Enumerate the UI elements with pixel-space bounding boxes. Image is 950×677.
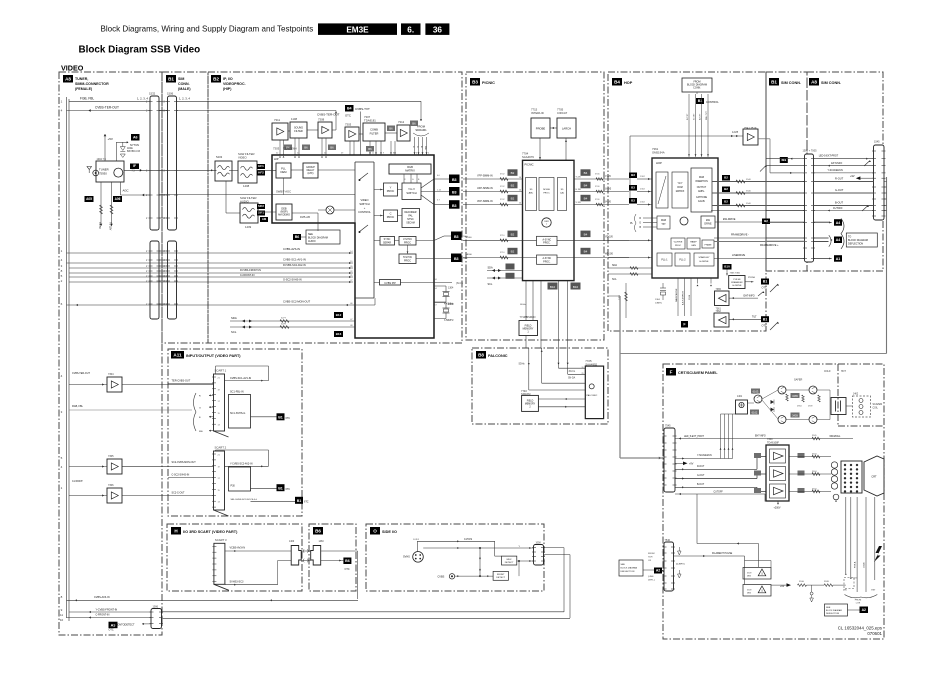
- svg-text:Y-U-V: Y-U-V: [408, 187, 415, 191]
- svg-text:1, 2, 3, 4: 1, 2, 3, 4: [179, 97, 190, 101]
- svg-text:B6: B6: [368, 147, 372, 151]
- svg-text:FRAMEDRIVE +: FRAMEDRIVE +: [760, 244, 779, 247]
- svg-text:PROC.: PROC.: [543, 261, 551, 263]
- svg-text:PROC.: PROC.: [543, 243, 551, 245]
- svg-text:SEPAR: SEPAR: [383, 242, 391, 245]
- svg-text:SEL-SVHS-SC2-SOCS-0-L: SEL-SVHS-SC2-SOCS-0-L: [231, 499, 258, 501]
- svg-text:SIF1: SIF1: [258, 211, 264, 215]
- svg-text:PALCONIC: PALCONIC: [488, 354, 508, 358]
- svg-text:3.58MHz: 3.58MHz: [444, 319, 454, 322]
- svg-text:SVHS: SVHS: [403, 556, 410, 559]
- svg-text:CVBS: CVBS: [438, 575, 445, 578]
- svg-text:G: G: [416, 146, 418, 148]
- svg-text:7312: 7312: [398, 120, 405, 124]
- svg-text:B10: B10: [573, 285, 579, 289]
- svg-text:6TC: 6TC: [286, 488, 291, 491]
- svg-text:6162: 6162: [752, 410, 758, 414]
- svg-text:B16: B16: [336, 332, 342, 336]
- svg-text:75930: 75930: [99, 172, 107, 176]
- svg-text:UFP-SIMM-IN: UFP-SIMM-IN: [477, 187, 493, 190]
- svg-text:3D: 3D: [561, 189, 564, 191]
- svg-text:B1: B1: [278, 486, 283, 490]
- svg-text:1532: 1532: [149, 92, 156, 96]
- svg-text:DEFLECTION: DEFLECTION: [621, 571, 635, 573]
- svg-text:DRIVE: DRIVE: [704, 223, 712, 226]
- svg-text:1108: 1108: [291, 117, 297, 121]
- svg-text:1462: 1462: [853, 394, 859, 396]
- svg-text:B6: B6: [295, 235, 300, 239]
- svg-text:HIP: HIP: [274, 157, 279, 161]
- svg-text:Y-CVBS-SC2-AV2-IN: Y-CVBS-SC2-AV2-IN: [230, 463, 253, 466]
- svg-text:14MHz: 14MHz: [655, 303, 662, 305]
- svg-text:6TC: 6TC: [286, 417, 291, 420]
- svg-text:CVBS-SC1-AV1-IN: CVBS-SC1-AV1-IN: [230, 377, 251, 380]
- svg-text:MSM4N: MSM4N: [526, 315, 535, 319]
- svg-text:IP, I/O: IP, I/O: [223, 77, 233, 81]
- svg-text:FM5-AB: FM5-AB: [300, 215, 310, 219]
- svg-text:VCBS-AV3-IN: VCBS-AV3-IN: [230, 547, 246, 550]
- svg-text:P5YN0: P5YN0: [748, 277, 756, 279]
- svg-text:B3: B3: [452, 191, 457, 195]
- svg-text:11: 11: [60, 613, 63, 617]
- svg-text:HF1: HF1: [258, 164, 264, 168]
- svg-text:3540: 3540: [746, 203, 752, 205]
- svg-text:B6: B6: [315, 529, 321, 534]
- svg-text:7305: 7305: [108, 455, 114, 458]
- svg-text:B4: B4: [614, 80, 620, 85]
- svg-text:Y 2/0: Y 2/0: [576, 177, 582, 179]
- svg-text:SAA4979: SAA4979: [522, 155, 534, 159]
- svg-text:SC2-CVBS-MON-OUT: SC2-CVBS-MON-OUT: [172, 461, 197, 464]
- svg-text:EHT-INFO: EHT-INFO: [755, 436, 766, 438]
- svg-text:CVBS-SC1-AV1-IN: CVBS-SC1-AV1-IN: [283, 258, 306, 262]
- svg-text:COLB: COLB: [864, 562, 866, 568]
- svg-text:DEFLECTION: DEFLECTION: [826, 613, 840, 615]
- svg-text:FIELD: FIELD: [527, 401, 534, 403]
- svg-text:TEA6306H: TEA6306H: [283, 147, 297, 151]
- svg-text:B1: B1: [763, 317, 768, 321]
- svg-text:PICNIC: PICNIC: [525, 163, 534, 167]
- svg-text:B-TXT: B-TXT: [700, 113, 702, 120]
- svg-text:U 2/0: U 2/0: [576, 189, 582, 191]
- svg-text:C: C: [390, 212, 392, 216]
- svg-text:ABC: ABC: [529, 192, 534, 195]
- svg-text:O-SC2-SVHS-IN: O-SC2-SVHS-IN: [283, 279, 302, 282]
- svg-text:AUDIO: AUDIO: [308, 240, 316, 243]
- svg-text:7311: 7311: [274, 118, 280, 122]
- svg-text:DEM: DEM: [281, 170, 288, 174]
- svg-text:B3: B3: [452, 178, 457, 182]
- svg-text:FROM: FROM: [648, 553, 655, 555]
- svg-text:IF: IF: [133, 164, 136, 168]
- svg-text:12V8: 12V8: [732, 130, 739, 134]
- svg-text:TER-CVBS-OUT: TER-CVBS-OUT: [172, 380, 191, 383]
- svg-text:!: !: [761, 572, 762, 576]
- svg-text:FILTER: FILTER: [294, 130, 303, 133]
- svg-text:POS-A: POS-A: [854, 561, 857, 568]
- svg-text:B2: B2: [511, 250, 515, 254]
- svg-text:B4: B4: [347, 107, 352, 111]
- svg-text:A8: A8: [65, 77, 71, 82]
- svg-text:CVBS-TER-OUT: CVBS-TER-OUT: [95, 105, 119, 109]
- svg-text:(MALE): (MALE): [178, 87, 191, 91]
- svg-text:VIDEO: VIDEO: [360, 198, 368, 202]
- svg-text:B4: B4: [584, 250, 588, 254]
- svg-text:1408: 1408: [243, 184, 250, 188]
- svg-text:AGC: AGC: [123, 189, 129, 193]
- svg-text:B3: B3: [454, 257, 459, 261]
- svg-text:INPUT/OUTPUT (VIDEO PART): INPUT/OUTPUT (VIDEO PART): [186, 354, 241, 358]
- svg-text:B6: B6: [412, 122, 416, 126]
- svg-text:INTERLID: INTERLID: [531, 111, 544, 115]
- svg-text:PROC: PROC: [404, 260, 411, 263]
- svg-text:SDA: SDA: [612, 264, 617, 267]
- svg-text:G-TXT: G-TXT: [694, 113, 696, 120]
- svg-text:R-OUT: R-OUT: [835, 177, 844, 181]
- svg-text:MATRIX: MATRIX: [405, 169, 415, 173]
- svg-text:FCVBS-FRONT-IN: FCVBS-FRONT-IN: [240, 269, 261, 272]
- svg-text:G-OUT: G-OUT: [835, 188, 844, 192]
- svg-text:7308: 7308: [318, 118, 325, 122]
- svg-text:INSERTION: INSERTION: [695, 181, 708, 183]
- svg-text:I/O 3RD SCART (VIDEO PART): I/O 3RD SCART (VIDEO PART): [183, 530, 238, 534]
- svg-text:SC1-FBL-IN: SC1-FBL-IN: [230, 391, 244, 394]
- svg-text:PLL: PLL: [281, 167, 286, 171]
- svg-text:1004 7.5: 1004 7.5: [97, 158, 107, 161]
- svg-text:AM DEMO: AM DEMO: [278, 214, 290, 217]
- svg-text:A4: A4: [836, 238, 841, 242]
- svg-text:Y-SCAVEM-IN: Y-SCAVEM-IN: [828, 169, 844, 172]
- svg-text:CVBS-AVS-IN: CVBS-AVS-IN: [283, 247, 300, 251]
- svg-text:TILT: TILT: [752, 316, 757, 319]
- svg-text:SEE: SEE: [621, 564, 626, 566]
- svg-text:B-OUT: B-OUT: [835, 201, 843, 205]
- svg-text:BLOCK DIAGRAM: BLOCK DIAGRAM: [826, 609, 842, 612]
- svg-text:PROC: PROC: [387, 215, 395, 219]
- svg-text:CUTOFF: CUTOFF: [714, 492, 724, 494]
- svg-text:SDRAM1: SDRAM1: [415, 128, 427, 132]
- svg-text:+9V: +9V: [850, 175, 855, 178]
- svg-text:STAND-BY: STAND-BY: [699, 256, 710, 259]
- svg-text:7714: 7714: [520, 315, 526, 319]
- svg-text:SCAVEM: SCAVEM: [873, 403, 883, 406]
- svg-text:BLOCK DIAGRAM: BLOCK DIAGRAM: [621, 567, 638, 570]
- svg-text:G: G: [199, 407, 201, 409]
- svg-text:29: 29: [582, 373, 584, 375]
- svg-text:G: G: [639, 223, 641, 225]
- svg-text:PROC: PROC: [543, 193, 550, 195]
- svg-text:2302: 2302: [640, 189, 646, 191]
- svg-text:OUTPUT: OUTPUT: [697, 187, 707, 189]
- svg-text:3465: 3465: [792, 394, 798, 398]
- svg-text:SDA: SDA: [231, 316, 237, 320]
- svg-text:Y: Y: [390, 186, 392, 190]
- svg-text:FROM: FROM: [417, 125, 426, 129]
- svg-text:SDHx: SDHx: [519, 364, 526, 366]
- svg-text:1304: 1304: [448, 287, 454, 290]
- svg-text:BZX88-C33: BZX88-C33: [127, 150, 141, 153]
- svg-text:TU-33V: TU-33V: [109, 222, 112, 231]
- svg-text:6163: 6163: [753, 389, 759, 393]
- svg-text:B4: B4: [584, 184, 588, 188]
- svg-text:SANDCASTLE: SANDCASTLE: [675, 288, 678, 302]
- svg-text:FBL-TXT: FBL-TXT: [706, 110, 708, 120]
- svg-text:RAMP: RAMP: [690, 241, 697, 244]
- svg-text:FRONT: FRONT: [497, 574, 505, 576]
- svg-text:VIDEO: VIDEO: [238, 156, 248, 160]
- svg-text:PROC: PROC: [675, 245, 682, 247]
- svg-text:A1: A1: [836, 257, 841, 261]
- svg-text:B3: B3: [631, 173, 635, 177]
- svg-text:SIM: SIM: [178, 77, 184, 81]
- svg-text:LINEDRIVE: LINEDRIVE: [732, 254, 746, 257]
- svg-text:PROC: PROC: [387, 189, 395, 193]
- svg-text:RGB, FBL: RGB, FBL: [72, 405, 84, 408]
- svg-text:SWITCH: SWITCH: [359, 202, 369, 206]
- svg-text:+9V: +9V: [689, 463, 694, 466]
- svg-text:B2: B2: [511, 171, 515, 175]
- svg-text:CVBS-TER-OUT: CVBS-TER-OUT: [72, 372, 90, 375]
- svg-text:SIDE I/O: SIDE I/O: [382, 530, 397, 534]
- svg-text:TDA6108F: TDA6108F: [767, 441, 780, 444]
- svg-text:7545: 7545: [665, 425, 671, 428]
- svg-text:OM5194A: OM5194A: [652, 151, 665, 155]
- svg-text:A-B-S-M-PROT: A-B-S-M-PROT: [682, 290, 685, 305]
- svg-text:OTC: OTC: [345, 568, 350, 571]
- svg-text:+200V: +200V: [774, 507, 781, 510]
- svg-text:6TC: 6TC: [304, 501, 309, 504]
- svg-text:B3: B3: [454, 235, 459, 239]
- svg-text:OTC: OTC: [762, 325, 767, 328]
- svg-text:B2: B2: [724, 176, 728, 180]
- svg-text:V 2/0: V 2/0: [576, 202, 582, 204]
- svg-text:350H: 350H: [799, 581, 804, 583]
- svg-text:MATRIX: MATRIX: [676, 190, 685, 193]
- svg-text:3D: 3D: [530, 189, 533, 191]
- svg-text:HF2: HF2: [258, 171, 264, 175]
- svg-text:6604/DAG: 6604/DAG: [830, 435, 841, 438]
- svg-text:TUNER,: TUNER,: [75, 77, 88, 81]
- svg-text:2302: 2302: [640, 202, 646, 204]
- svg-text:(HIP): (HIP): [223, 87, 232, 91]
- svg-text:SCL: SCL: [488, 283, 493, 286]
- svg-text:A8: A8: [811, 80, 817, 85]
- svg-text:SCL: SCL: [231, 330, 237, 334]
- svg-text:SCART 2: SCART 2: [215, 446, 227, 450]
- svg-text:OTC: OTC: [109, 628, 114, 631]
- svg-text:CVBS-SC2-MON-OUT: CVBS-SC2-MON-OUT: [283, 300, 311, 304]
- svg-text:Y-CVBS-FRONT-IN: Y-CVBS-FRONT-IN: [96, 608, 118, 611]
- svg-text:A2: A2: [862, 608, 866, 612]
- svg-text:SIMM-CONNECTOR: SIMM-CONNECTOR: [75, 82, 109, 86]
- svg-text:1461: 1461: [737, 396, 743, 398]
- svg-text:PLL-2: PLL-2: [679, 260, 686, 262]
- svg-text:7306: 7306: [108, 484, 114, 487]
- svg-text:LARCH: LARCH: [562, 127, 571, 131]
- svg-text:SCL: SCL: [612, 278, 617, 281]
- svg-text:DIN: DIN: [843, 590, 847, 592]
- svg-text:NOISE: NOISE: [543, 189, 550, 191]
- svg-text:EM3E: EM3E: [346, 25, 369, 34]
- svg-text:B4: B4: [584, 171, 588, 175]
- svg-text:B3: B3: [631, 199, 635, 203]
- svg-text:B6: B6: [389, 127, 393, 131]
- svg-text:PROBE: PROBE: [536, 127, 546, 131]
- svg-text:RGB: RGB: [661, 220, 666, 222]
- svg-text:Y-2/0: Y-2/0: [605, 175, 611, 178]
- svg-text:1460: 1460: [289, 541, 295, 543]
- svg-text:TDA9181: TDA9181: [364, 119, 376, 123]
- svg-text:RGB: RGB: [407, 165, 413, 169]
- svg-text:A06: A06: [115, 197, 121, 201]
- svg-text:7365 7366: 7365 7366: [730, 273, 741, 275]
- svg-text:(LPF): (LPF): [308, 172, 314, 175]
- svg-text:A6: A6: [133, 136, 138, 140]
- svg-text:1506: 1506: [167, 92, 174, 96]
- svg-text:070601: 070601: [867, 631, 882, 636]
- svg-text:CVBS-TXT: CVBS-TXT: [355, 107, 370, 111]
- svg-text:10: 10: [60, 618, 64, 622]
- svg-text:CRT: CRT: [871, 475, 877, 479]
- svg-text:SC1-SVHS-G: SC1-SVHS-G: [230, 412, 245, 415]
- svg-text:CONN.: CONN.: [693, 87, 701, 90]
- svg-text:Y-SCAVEM-IN: Y-SCAVEM-IN: [697, 454, 712, 457]
- svg-text:SAFER: SAFER: [794, 379, 803, 382]
- svg-text:SN-DA: SN-DA: [568, 377, 576, 380]
- svg-text:2302: 2302: [640, 176, 646, 178]
- svg-text:LED_5-EXT_PROT: LED_5-EXT_PROT: [684, 436, 705, 438]
- svg-text:B4: B4: [584, 197, 588, 201]
- svg-text:OTC: OTC: [345, 114, 351, 118]
- svg-text:B6: B6: [304, 146, 308, 150]
- svg-text:VFP-SIMM-IN: VFP-SIMM-IN: [477, 200, 493, 203]
- svg-text:1409: 1409: [245, 225, 252, 229]
- svg-text:CATHODE: CATHODE: [696, 196, 708, 199]
- svg-text:7303: 7303: [345, 123, 352, 127]
- svg-text:Y1/Y: Y1/Y: [678, 183, 683, 185]
- svg-text:SCART 1: SCART 1: [215, 369, 227, 373]
- svg-text:SDHx: SDHx: [520, 304, 527, 306]
- svg-text:SIM CONN.: SIM CONN.: [781, 81, 801, 85]
- svg-text:H-DRIVE: H-DRIVE: [700, 261, 710, 263]
- svg-text:CRT/SC/AVEM PANEL: CRT/SC/AVEM PANEL: [678, 371, 718, 375]
- svg-text:B8: B8: [478, 353, 484, 358]
- svg-text:FROM: FROM: [855, 600, 862, 602]
- svg-text:7504: 7504: [463, 258, 469, 260]
- svg-text:CUTOFF: CUTOFF: [833, 207, 843, 210]
- svg-text:SDA: SDA: [488, 266, 493, 269]
- svg-text:TXT: TXT: [661, 224, 666, 226]
- svg-text:R-OUT: R-OUT: [697, 466, 705, 468]
- svg-text:HD-2/0: HD-2/0: [605, 253, 614, 256]
- svg-text:B1: B1: [297, 499, 302, 503]
- svg-text:HOT: HOT: [841, 371, 846, 373]
- svg-text:TU-5V: TU-5V: [98, 222, 101, 229]
- svg-text:SEE: SEE: [826, 607, 831, 609]
- svg-text:FGB, FBL: FGB, FBL: [80, 96, 94, 100]
- svg-text:CONTROL: CONTROL: [358, 210, 371, 214]
- svg-text:A2: A2: [656, 569, 660, 573]
- svg-text:C-FRONT-IN: C-FRONT-IN: [240, 274, 255, 277]
- svg-text:B3: B3: [472, 80, 478, 85]
- svg-text:1545: 1545: [874, 141, 880, 144]
- svg-text:B6: B6: [345, 559, 350, 563]
- svg-text:334B: 334B: [824, 581, 829, 583]
- svg-text:7304: 7304: [108, 373, 114, 376]
- svg-text:B2: B2: [511, 232, 515, 236]
- svg-text:COLD: COLD: [824, 371, 831, 373]
- svg-text:SIM CONN.: SIM CONN.: [821, 81, 841, 85]
- svg-text:3N-CL: 3N-CL: [569, 371, 576, 373]
- svg-text:7303: 7303: [273, 147, 280, 151]
- svg-text:A4: A4: [836, 221, 841, 225]
- svg-text:B3: B3: [452, 204, 457, 208]
- svg-text:HD00: HD00: [466, 254, 472, 256]
- svg-text:CALIB.: CALIB.: [698, 200, 706, 203]
- svg-text:20: 20: [582, 367, 584, 369]
- svg-text:SIF2: SIF2: [258, 204, 264, 208]
- svg-text:A11: A11: [173, 353, 182, 358]
- svg-text:1506 + 7005: 1506 + 7005: [803, 150, 818, 153]
- svg-text:A05: A05: [86, 197, 92, 201]
- svg-text:Block Diagram SSB Video: Block Diagram SSB Video: [79, 44, 201, 55]
- svg-text:B1: B1: [763, 280, 768, 284]
- svg-text:5403: 5403: [216, 155, 223, 159]
- svg-text:PROC: PROC: [404, 242, 411, 245]
- svg-text:3540: 3540: [746, 179, 752, 181]
- svg-text:SC2-C-OUT: SC2-C-OUT: [172, 492, 186, 495]
- svg-text:1364: 1364: [655, 299, 661, 301]
- svg-text:(N.C.): (N.C.): [456, 281, 463, 285]
- svg-text:CONN.: CONN.: [178, 82, 190, 86]
- svg-text:G-OUT: G-OUT: [697, 475, 705, 477]
- svg-text:PHASE: PHASE: [704, 244, 712, 247]
- svg-text:7DH: 7DH: [648, 557, 653, 559]
- svg-text:1460: 1460: [319, 541, 325, 543]
- svg-text:+5V: +5V: [108, 137, 113, 141]
- svg-text:HOP: HOP: [624, 81, 633, 85]
- svg-text:CVBS-AV3-IN: CVBS-AV3-IN: [94, 596, 110, 599]
- svg-text:DETECT: DETECT: [496, 577, 505, 579]
- svg-text:LOE: LOE: [856, 603, 861, 605]
- svg-text:V-2/0: V-2/0: [605, 201, 611, 204]
- svg-text:ROM: ROM: [677, 187, 682, 189]
- svg-text:FILAMENT PULSE: FILAMENT PULSE: [712, 552, 733, 555]
- svg-text:3277: 3277: [281, 318, 287, 320]
- svg-text:B10: B10: [550, 285, 556, 289]
- svg-text:SECAM: SECAM: [406, 222, 415, 225]
- svg-text:(D-INFO): (D-INFO): [676, 564, 685, 566]
- svg-text:B2: B2: [724, 187, 728, 191]
- svg-text:EHT-INFO: EHT-INFO: [744, 295, 755, 298]
- svg-text:DEFLECTION: DEFLECTION: [848, 243, 863, 246]
- svg-text:FRAMEDRIVE -: FRAMEDRIVE -: [731, 234, 749, 237]
- svg-text:B4: B4: [584, 232, 588, 236]
- svg-text:B-OUT: B-OUT: [697, 484, 705, 486]
- svg-text:PALCONIC: PALCONIC: [587, 394, 598, 397]
- svg-text:YD-2/0: YD-2/0: [605, 236, 613, 239]
- svg-text:(LINE: (LINE: [648, 576, 654, 578]
- svg-text:YD00: YD00: [466, 237, 472, 239]
- svg-text:FILTER: FILTER: [370, 132, 379, 136]
- svg-text:PULSE: PULSE: [733, 279, 741, 281]
- svg-text:FRONTODETECT: FRONTODETECT: [114, 623, 135, 626]
- svg-text:B2: B2: [213, 77, 219, 82]
- svg-text:MEMORY: MEMORY: [525, 404, 536, 406]
- svg-text:B1: B1: [771, 80, 777, 85]
- svg-text:H-DRIVE: H-DRIVE: [733, 285, 743, 287]
- svg-text:C-FRONT-IN: C-FRONT-IN: [96, 614, 110, 617]
